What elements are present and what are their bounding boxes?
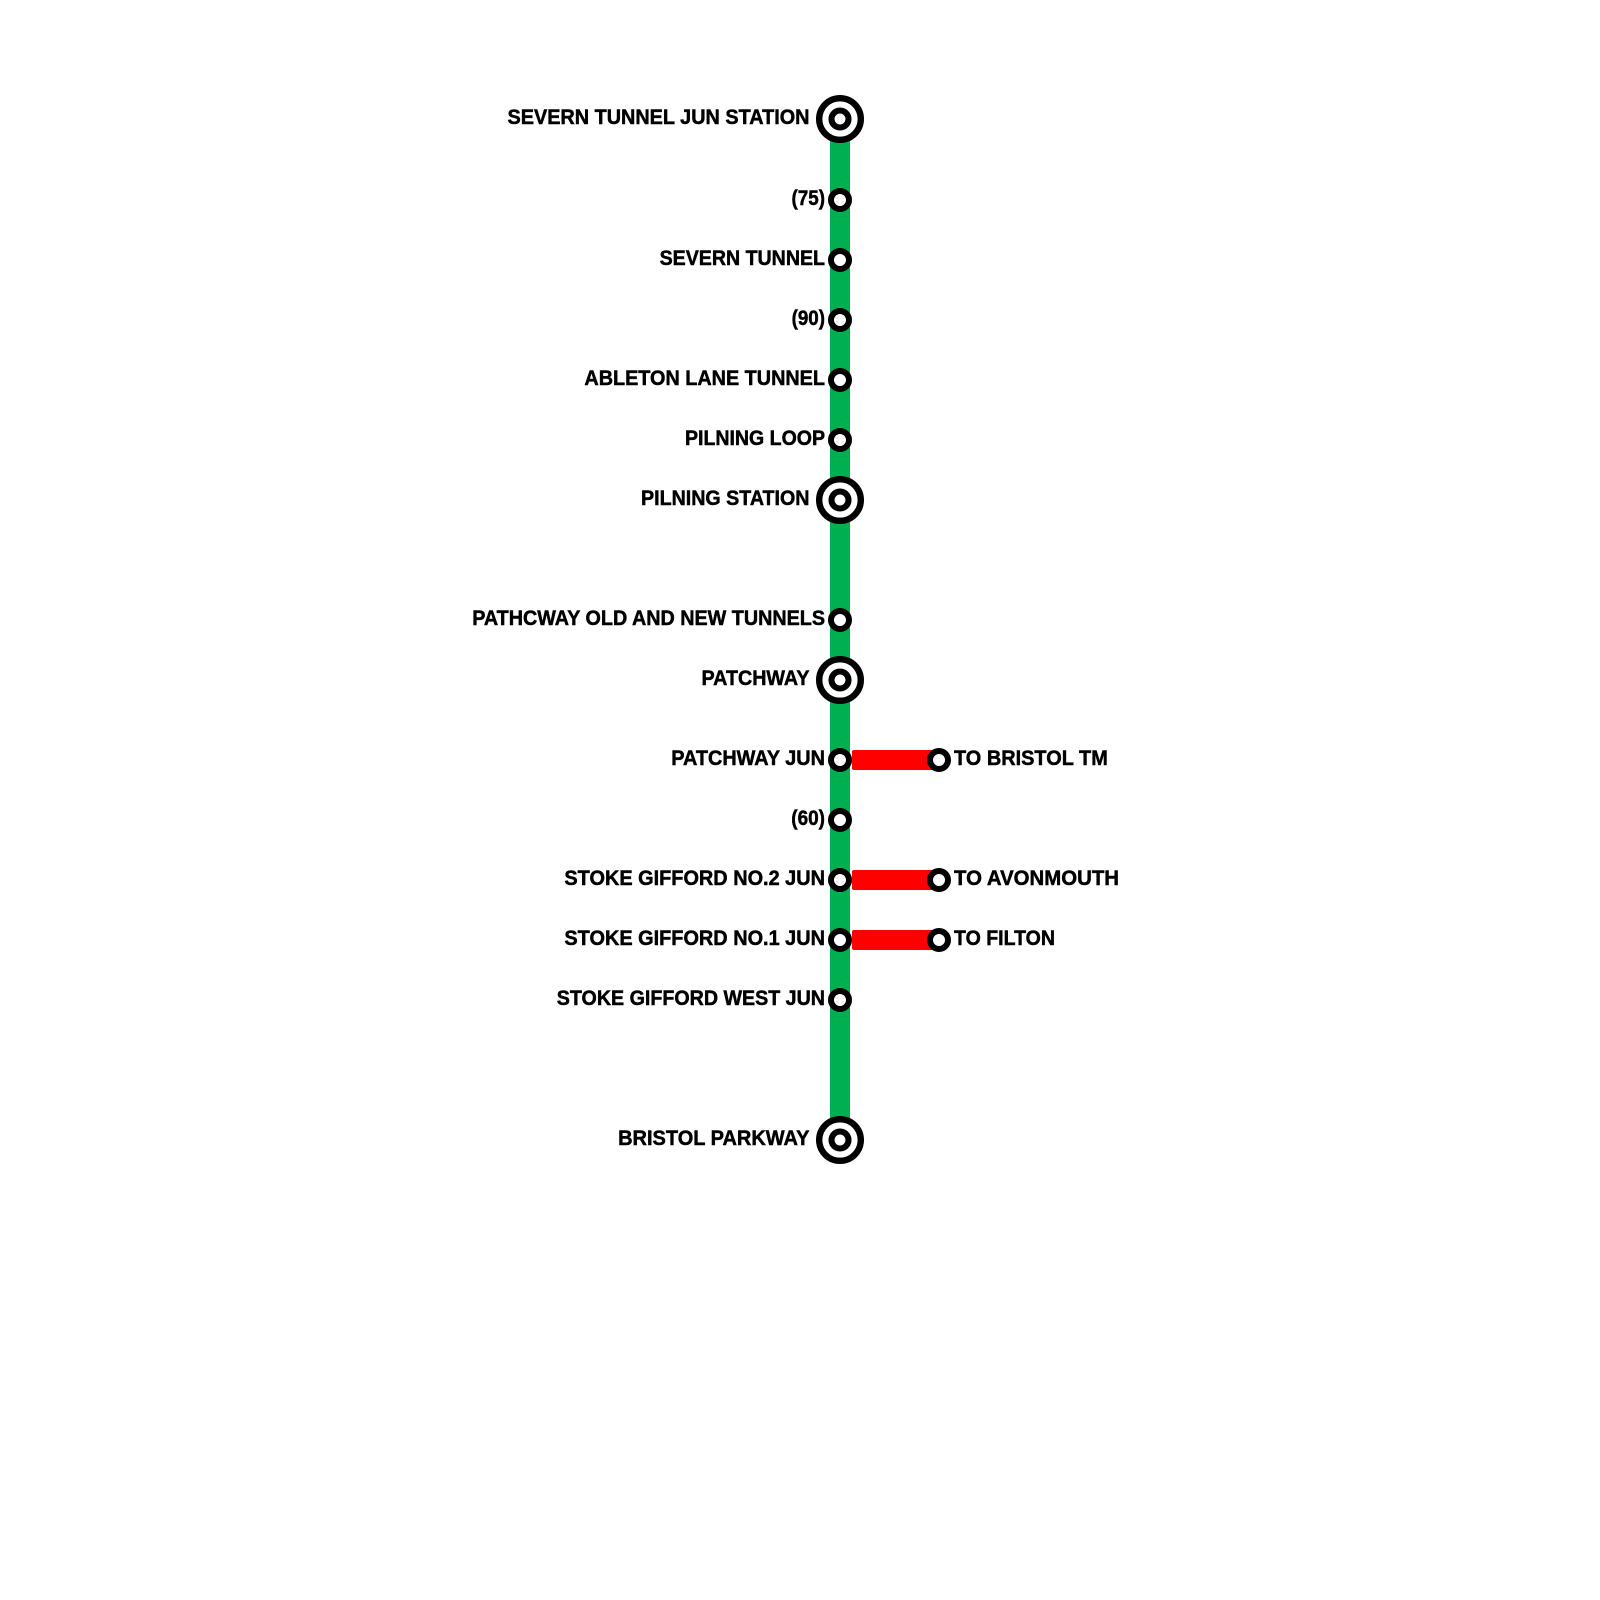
svg-text:SEVERN TUNNEL JUN STATION: SEVERN TUNNEL JUN STATION [508, 105, 810, 129]
svg-text:ABLETON LANE TUNNEL: ABLETON LANE TUNNEL [584, 366, 825, 390]
svg-text:(60): (60) [791, 806, 825, 830]
svg-text:(75): (75) [792, 186, 826, 210]
svg-text:PATCHWAY JUN: PATCHWAY JUN [671, 746, 825, 770]
svg-text:STOKE GIFFORD NO.2 JUN: STOKE GIFFORD NO.2 JUN [564, 866, 825, 890]
svg-text:PILNING STATION: PILNING STATION [641, 486, 810, 510]
svg-text:PATCHWAY: PATCHWAY [702, 666, 810, 690]
svg-text:STOKE GIFFORD NO.1 JUN: STOKE GIFFORD NO.1 JUN [564, 926, 825, 950]
svg-text:(90): (90) [792, 306, 825, 330]
svg-text:STOKE GIFFORD WEST JUN: STOKE GIFFORD WEST JUN [557, 986, 825, 1010]
svg-text:PATHCWAY OLD AND NEW TUNNELS: PATHCWAY OLD AND NEW TUNNELS [472, 606, 825, 630]
svg-text:SEVERN TUNNEL: SEVERN TUNNEL [660, 246, 825, 270]
svg-text:PILNING LOOP: PILNING LOOP [685, 426, 825, 450]
svg-text:TO BRISTOL TM: TO BRISTOL TM [954, 746, 1108, 770]
svg-text:BRISTOL PARKWAY: BRISTOL PARKWAY [618, 1126, 809, 1150]
svg-text:TO AVONMOUTH: TO AVONMOUTH [954, 866, 1119, 890]
svg-text:TO FILTON: TO FILTON [954, 926, 1055, 950]
